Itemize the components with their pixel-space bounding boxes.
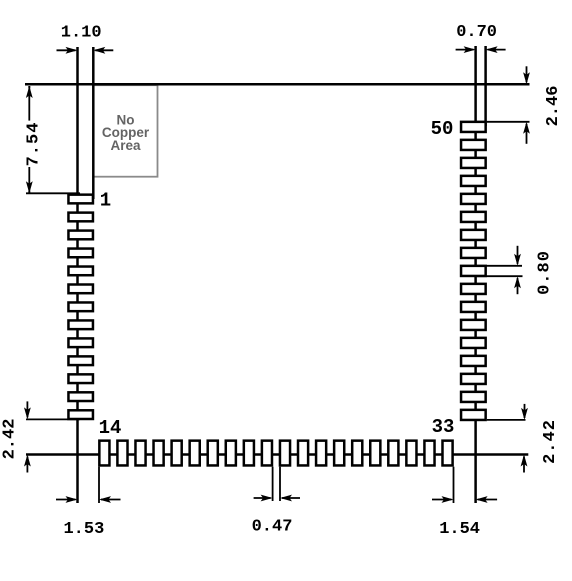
dimension 0.80: [517, 246, 519, 264]
pad pin 42 (right column, pin 42): [461, 266, 486, 276]
pad pin 15 (bottom row): [117, 441, 127, 466]
pad pin 31 (bottom row): [406, 441, 416, 466]
module right edge line: [474, 46, 477, 503]
pad pin 45 (right column, pin 45): [461, 212, 486, 222]
pad pin 38 (right column, pin 38): [461, 338, 486, 348]
pad pin 13 (left column): [68, 410, 93, 419]
pad pin 36 (right column, pin 36): [461, 374, 486, 384]
extension line pad14 left edge: [98, 467, 100, 503]
dimension 0.47 arrows: [254, 497, 271, 499]
pad pin 25 (bottom row): [298, 441, 308, 466]
pad pin 41 (right column, pin 41): [461, 284, 486, 294]
pad pin 26 (bottom row): [316, 441, 326, 466]
pad pin 5 (left column): [68, 267, 93, 276]
pad pin 23 (bottom row): [262, 441, 272, 466]
2.42 left top tick: [26, 418, 80, 420]
pad pin 10 (left column): [68, 356, 93, 365]
svg-text:33: 33: [432, 416, 455, 438]
svg-text:2.42: 2.42: [0, 419, 19, 460]
pad pin 24 (bottom row): [280, 441, 290, 466]
pad pin 35 (right column, pin 35): [461, 392, 486, 402]
pad pin 12 (left column): [68, 392, 93, 401]
pad pin 39 (right column, pin 39): [461, 320, 486, 330]
7.54 bottom tick: [26, 192, 80, 194]
svg-text:Area: Area: [110, 138, 141, 153]
svg-text:1: 1: [100, 190, 111, 212]
dimension 2.46: [526, 66, 528, 82]
dimension 1.53 arrows: [56, 499, 76, 501]
pad pin 22 (bottom row): [244, 441, 254, 466]
dimension 2.42 left: [26, 401, 28, 417]
svg-text:0.70: 0.70: [456, 23, 497, 42]
pad pin 30 (bottom row): [388, 441, 398, 466]
pad pin 4 (left column): [68, 249, 93, 258]
svg-text:50: 50: [431, 118, 454, 140]
pad pin 6 (left column): [68, 285, 93, 294]
2.42 right top tick: [487, 419, 526, 421]
dimension 2.42 right: [524, 404, 526, 418]
pad pin 9 (left column): [68, 338, 93, 347]
0.80 ticks: [486, 265, 522, 267]
pad pin 50 (right column, pin 50): [461, 122, 486, 132]
pad pin 17 (bottom row): [154, 441, 164, 466]
pad pin 11 (left column): [68, 374, 93, 383]
pad pin 47 (right column, pin 47): [461, 176, 486, 186]
svg-text:1.54: 1.54: [439, 520, 480, 539]
pad pin 40 (right column, pin 40): [461, 302, 486, 312]
pad pin 21 (bottom row): [226, 441, 236, 466]
right pad outer extension line: [484, 46, 487, 126]
pad pin 7 (left column): [68, 302, 93, 311]
pad pin 33 (bottom row): [442, 441, 452, 466]
pad pin 19 (bottom row): [190, 441, 200, 466]
pad pin 2 (left column): [68, 213, 93, 222]
extension lines 0.47 pad edges: [272, 467, 274, 501]
pad pin 29 (bottom row): [370, 441, 380, 466]
pad pin 3 (left column): [68, 231, 93, 240]
svg-text:14: 14: [99, 417, 122, 439]
svg-text:0.47: 0.47: [252, 517, 293, 536]
pad pin 32 (bottom row): [424, 441, 434, 466]
No Copper Area box: [94, 85, 158, 177]
svg-text:7.54: 7.54: [24, 122, 43, 167]
svg-text:2.42: 2.42: [541, 419, 560, 464]
dimension 1.54 arrows: [432, 499, 452, 501]
left pad inner extension line: [92, 47, 95, 199]
pad pin 27 (bottom row): [334, 441, 344, 466]
pad pin 20 (bottom row): [208, 441, 218, 466]
pad pin 28 (bottom row): [352, 441, 362, 466]
pad pin 16 (bottom row): [135, 441, 145, 466]
pad pin 1 (left column): [68, 195, 93, 204]
module bottom edge: [26, 453, 528, 456]
pad pin 48 (right column, pin 48): [461, 158, 486, 168]
dimension 1.10 arrows: [57, 49, 76, 51]
module left edge line: [76, 47, 79, 503]
extension line pad33 right edge: [453, 467, 455, 503]
dimension 7.54 line: [28, 86, 30, 121]
module top edge: [25, 83, 530, 86]
pad pin 18 (bottom row): [172, 441, 182, 466]
svg-text:2.46: 2.46: [544, 86, 563, 127]
svg-text:1.10: 1.10: [61, 24, 102, 43]
pad pin 34 (right column, pin 34): [461, 410, 486, 420]
pad pin 43 (right column, pin 43): [461, 248, 486, 258]
pad pin 14 (bottom row): [99, 441, 109, 466]
pad pin 46 (right column, pin 46): [461, 194, 486, 204]
dimension 0.70 arrows: [456, 49, 474, 51]
2.46 bottom tick: [487, 121, 530, 123]
pad pin 37 (right column, pin 37): [461, 356, 486, 366]
svg-text:1.53: 1.53: [63, 520, 104, 539]
pad pin 44 (right column, pin 44): [461, 230, 486, 240]
pad pin 8 (left column): [68, 320, 93, 329]
svg-text:0.80: 0.80: [535, 250, 554, 295]
pad pin 49 (right column, pin 49): [461, 140, 486, 150]
